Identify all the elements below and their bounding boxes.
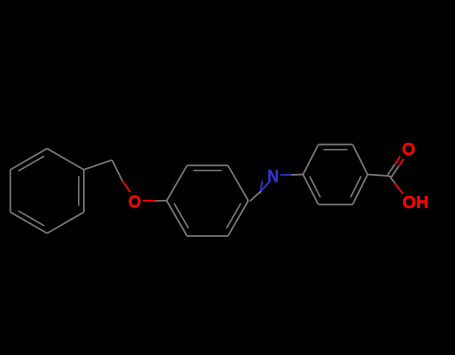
wire: C to hydroxyl O bond (gray half + red half)	[390, 176, 403, 194]
benzene ring: central benzylidene C1-C6	[167, 165, 249, 236]
benzene ring: benzyl phenyl C1-C6	[10, 149, 83, 234]
wire: N to right ring bond (blue half + gray half)	[280, 174, 303, 176]
benzene ring: benzoic acid C1-C6	[303, 145, 368, 205]
double bond C=N (imine)	[250, 181, 269, 202]
svg-text:OH: OH	[402, 192, 428, 212]
svg-text:O: O	[402, 138, 415, 159]
double bond C=O (carbonyl)	[388, 156, 404, 177]
wire: O to central ring bond (red half + gray half)	[143, 200, 167, 202]
wire: CH2 to ether O bond (gray half + red half)	[112, 160, 130, 192]
svg-text:O: O	[128, 191, 141, 212]
wire: ring to carboxyl carbon	[368, 175, 390, 177]
svg-text:N: N	[267, 166, 278, 186]
wire: ring C1 to benzylic CH2	[84, 160, 112, 170]
